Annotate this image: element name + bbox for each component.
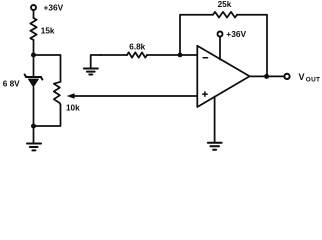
- terminal +36V left: [31, 5, 36, 10]
- svg-text:V: V: [299, 72, 305, 82]
- terminal +36V op-amp supply: [218, 32, 223, 37]
- label +36V left: [44, 3, 64, 13]
- resistor 6.8k: [127, 52, 147, 57]
- node B junction: [31, 124, 36, 129]
- label 25k: [218, 0, 232, 9]
- wire ground to 6.8k: [100, 54, 127, 56]
- wire node A to zener: [33, 55, 35, 77]
- wire op-amp to ground: [214, 97, 216, 142]
- svg-text:+36V: +36V: [44, 3, 64, 13]
- wire supply to op-amp: [219, 37, 221, 60]
- svg-text:10k: 10k: [66, 104, 80, 113]
- wire 15k to node A: [33, 40, 35, 55]
- terminal VOUT: [284, 74, 289, 79]
- wire feedback left riser: [180, 15, 213, 55]
- ground at 6.8k input: [84, 55, 101, 75]
- node VOUT junction: [264, 74, 269, 79]
- label 6.8k: [129, 43, 145, 52]
- label 6.8V zener: [3, 80, 20, 89]
- resistor 15k: [30, 18, 36, 40]
- node C feedback junction: [178, 53, 183, 58]
- label 10k: [66, 104, 80, 113]
- wire node B to pot bottom: [34, 105, 61, 126]
- svg-text:OUT: OUT: [306, 77, 320, 84]
- ground below op-amp: [208, 143, 222, 150]
- wire node A to pot top: [34, 55, 61, 82]
- label +36V op-amp: [226, 29, 246, 39]
- label 15k: [41, 27, 55, 36]
- wire zener to node B: [33, 88, 35, 127]
- wire terminal to 15k: [33, 10, 35, 18]
- potentiometer wiper arrow: [67, 93, 197, 99]
- wire feedback right riser: [237, 15, 267, 77]
- svg-text:6 8V: 6 8V: [3, 80, 20, 89]
- potentiometer 10k element: [54, 82, 61, 105]
- node A junction: [31, 53, 36, 58]
- ground left: [27, 126, 41, 150]
- svg-text:15k: 15k: [41, 27, 55, 36]
- wire output: [250, 75, 285, 77]
- label VOUT: [299, 72, 321, 84]
- zener diode 6.8V: [25, 75, 43, 88]
- resistor 25k: [213, 12, 237, 18]
- svg-text:6.8k: 6.8k: [129, 43, 145, 52]
- wire 6.8k to inverting input node: [147, 54, 197, 56]
- svg-text:25k: 25k: [218, 0, 232, 9]
- svg-text:+36V: +36V: [226, 29, 246, 39]
- op-amp U1: [197, 46, 249, 107]
